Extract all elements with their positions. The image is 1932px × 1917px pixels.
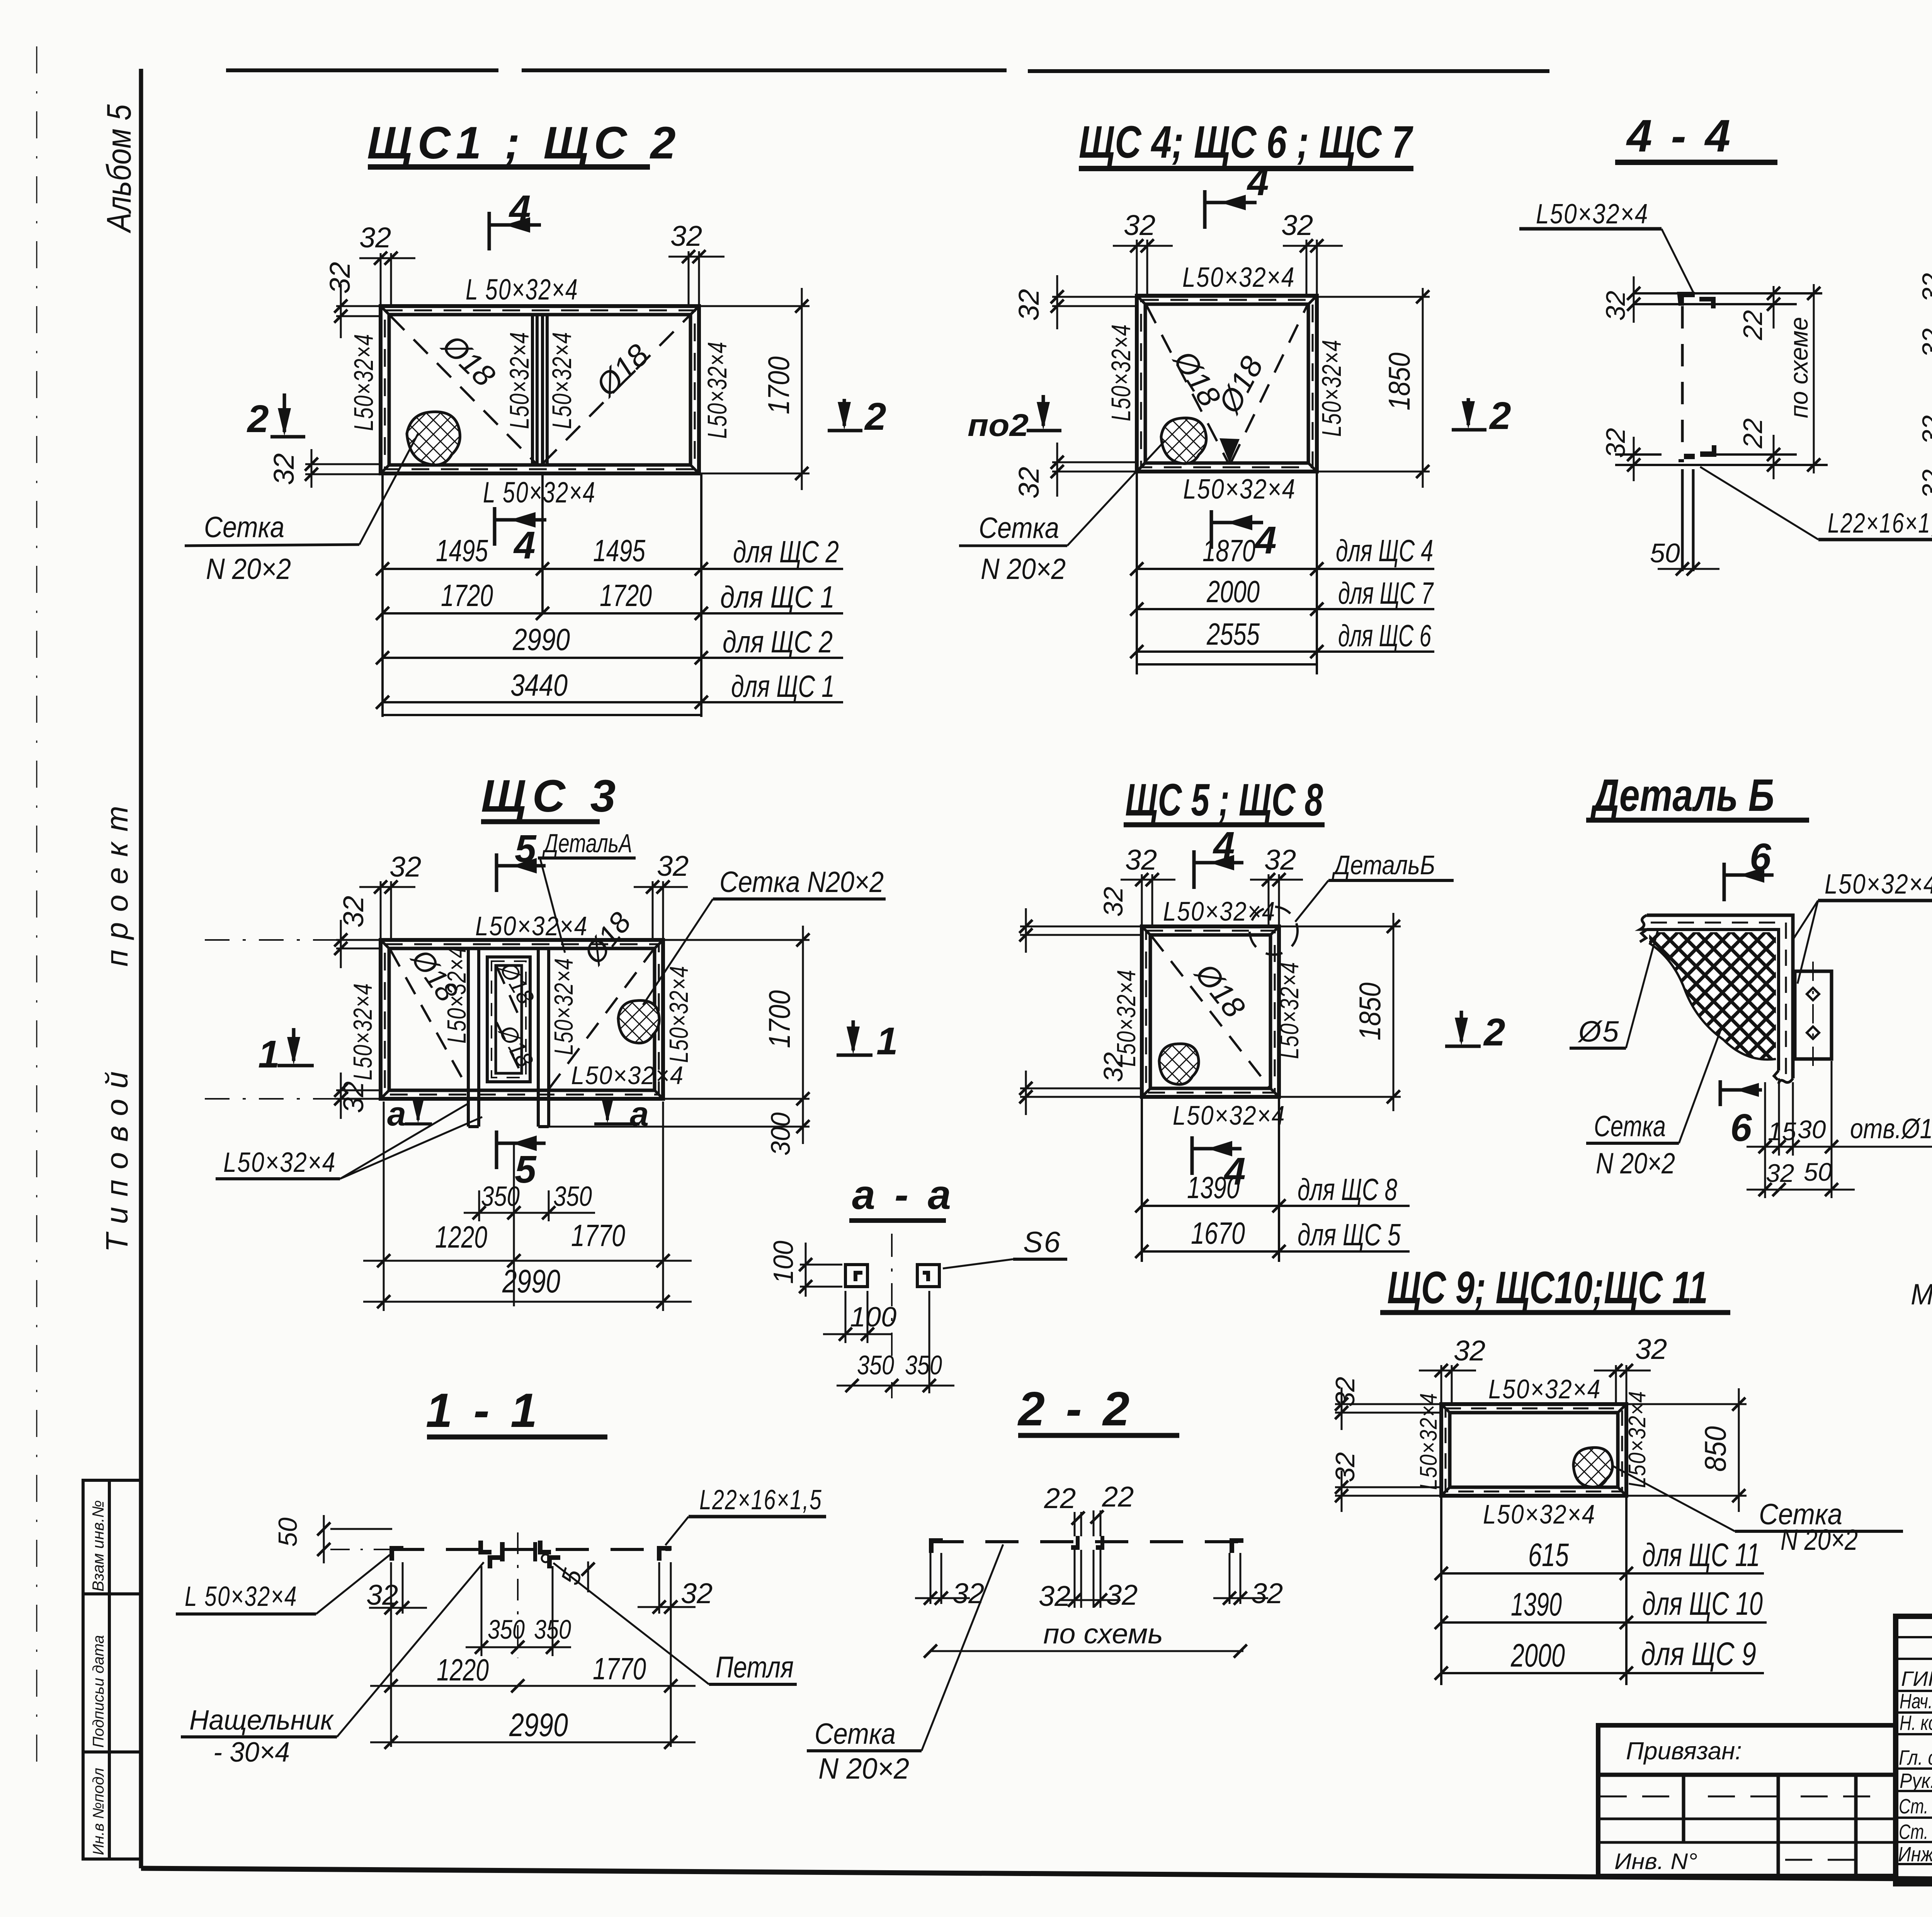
4-4 bottom rail [1615, 445, 1828, 465]
svg-text:32: 32 [952, 1577, 984, 1609]
2-2 main dashed line [930, 1540, 1240, 1543]
panel ЩС9 frame [1441, 1404, 1626, 1496]
svg-text:4: 4 [1247, 160, 1269, 204]
svg-text:2: 2 [864, 395, 886, 438]
svg-text:Петля: Петля [716, 1650, 794, 1684]
svg-text:L50×32×4: L50×32×4 [1106, 324, 1136, 421]
dim 1850 right (ЩС5) [1279, 913, 1401, 1111]
2-2 right end angle [1230, 1538, 1243, 1553]
svg-text:Ст. инж.: Ст. инж. [1899, 1795, 1932, 1818]
dim table ЩС1 [383, 473, 843, 717]
svg-text:1720: 1720 [600, 578, 652, 613]
svg-text:350: 350 [905, 1350, 942, 1380]
svg-text:для ЩС 2: для ЩС 2 [723, 625, 833, 659]
mesh blob ЩС5 [1159, 1044, 1199, 1084]
svg-text:6: 6 [1730, 1106, 1752, 1149]
section mark 4 (top of ЩС1) [489, 212, 541, 250]
svg-text:4: 4 [1254, 519, 1277, 562]
mesh blob ЩС1 [407, 412, 460, 465]
panel ЩС3 frame [381, 940, 663, 1099]
svg-text:a: a [387, 1095, 406, 1133]
svg-text:a - a: a - a [852, 1171, 955, 1218]
sheet frame: bottom border [141, 1868, 1932, 1884]
svg-text:1700: 1700 [762, 990, 796, 1048]
svg-text:L50×32×4: L50×32×4 [504, 332, 534, 429]
svg-text:по схеме: по схеме [1784, 317, 1813, 418]
svg-text:для ЩС 2: для ЩС 2 [733, 535, 839, 569]
svg-text:50: 50 [273, 1517, 303, 1547]
svg-text:32: 32 [359, 221, 391, 254]
4-4 dashed web line [1681, 306, 1684, 455]
svg-text:1720: 1720 [441, 578, 493, 613]
svg-text:1: 1 [876, 1020, 898, 1063]
panel ЩС4 frame [1137, 296, 1317, 472]
svg-text:2: 2 [1489, 394, 1511, 438]
Деталь Б gusset plate [1795, 962, 1832, 1069]
svg-text:L50×32×4: L50×32×4 [547, 332, 577, 429]
svg-text:3440: 3440 [510, 668, 568, 702]
Деталь Б mesh area [1649, 932, 1776, 1059]
svg-text:32: 32 [337, 896, 369, 928]
mesh blob ЩС3 [618, 1001, 659, 1043]
svg-text:1220: 1220 [435, 1220, 487, 1254]
svg-text:L50×32×4: L50×32×4 [1488, 1374, 1601, 1404]
svg-text:L50×32×4: L50×32×4 [1182, 262, 1295, 293]
section mark 5 (bottom of ЩС3) [497, 1130, 546, 1169]
panel ЩС1 middle divider [532, 315, 547, 465]
svg-text:для ЩС 4: для ЩС 4 [1336, 533, 1433, 568]
svg-text:32: 32 [1330, 1452, 1360, 1482]
svg-text:по схемь: по схемь [1043, 1619, 1163, 1650]
title block main frame [1896, 1616, 1932, 1884]
svg-text:32: 32 [1635, 1333, 1667, 1365]
svg-text:Сетка: Сетка [979, 512, 1059, 545]
svg-text:Инженер: Инженер [1898, 1843, 1932, 1866]
dim line по схеме (2-2) [930, 1650, 1243, 1652]
svg-text:L50×32×4: L50×32×4 [1112, 969, 1141, 1067]
svg-text:L50×32×4: L50×32×4 [1275, 962, 1304, 1059]
svg-text:отв.Ø15: отв.Ø15 [1850, 1113, 1932, 1144]
section mark 2 right of ЩС1 [828, 399, 862, 431]
svg-text:615: 615 [1528, 1537, 1569, 1573]
svg-text:для ЩС 6: для ЩС 6 [1338, 618, 1431, 653]
svg-text:Взам инв.№: Взам инв.№ [89, 1500, 107, 1592]
dim 1700 right of ЩС3 [663, 926, 810, 1144]
section mark 4 (top of ЩС5) [1194, 850, 1243, 889]
svg-text:32: 32 [1039, 1580, 1070, 1612]
svg-text:ДетальА: ДетальА [542, 829, 632, 858]
svg-text:ГИП: ГИП [1901, 1667, 1932, 1691]
svg-text:32: 32 [1013, 467, 1045, 499]
svg-text:L50×32×4: L50×32×4 [549, 958, 578, 1055]
svg-text:L50×32×4: L50×32×4 [348, 983, 378, 1080]
svg-text:для ЩС 8: для ЩС 8 [1298, 1172, 1397, 1207]
svg-text:4: 4 [513, 524, 536, 567]
svg-text:2: 2 [1483, 1011, 1505, 1054]
svg-text:Рук. гр.: Рук. гр. [1900, 1769, 1932, 1793]
Деталь Б circle (ЩС5) [1250, 907, 1298, 955]
svg-text:350: 350 [488, 1614, 525, 1645]
svg-text:L22×16×1,5: L22×16×1,5 [1828, 508, 1932, 539]
4-4 top rail [1634, 292, 1822, 308]
svg-text:Сетка: Сетка [1594, 1110, 1666, 1143]
svg-text:Ин.в №подл: Ин.в №подл [90, 1768, 107, 1855]
2-2 left end angle [929, 1538, 943, 1553]
svg-text:1: 1 [258, 1033, 280, 1076]
svg-text:Н. контр.: Н. контр. [1900, 1711, 1932, 1735]
svg-text:Альбом 5: Альбом 5 [100, 104, 138, 233]
svg-text:850: 850 [1698, 1426, 1732, 1472]
panel ЩС1 frame [381, 306, 699, 473]
svg-text:350: 350 [857, 1350, 894, 1380]
svg-text:4: 4 [509, 187, 531, 231]
svg-text:5: 5 [515, 827, 537, 870]
svg-text:Нач. отд.: Нач. отд. [1900, 1690, 1932, 1713]
svg-text:32: 32 [670, 220, 702, 252]
svg-text:L50×32×4: L50×32×4 [664, 965, 694, 1063]
svg-text:2 - 2: 2 - 2 [1017, 1382, 1133, 1436]
panel ЩС5 frame [1142, 926, 1279, 1097]
section mark 2 right of ЩС4 [1452, 398, 1486, 430]
svg-text:Ст. инж.: Ст. инж. [1899, 1820, 1932, 1844]
svg-text:350: 350 [553, 1181, 592, 1212]
svg-text:ЩС 9; ЩС10;ЩС 11: ЩС 9; ЩС10;ЩС 11 [1387, 1262, 1708, 1313]
svg-text:L22×16×1,5: L22×16×1,5 [699, 1485, 822, 1515]
axis dash-dot lines left of ЩС3 [205, 940, 381, 1099]
svg-text:1495: 1495 [593, 533, 645, 568]
svg-text:2555: 2555 [1206, 617, 1260, 651]
svg-text:32: 32 [1106, 1579, 1138, 1611]
svg-text:L50×32×4: L50×32×4 [1183, 474, 1296, 505]
svg-text:L 50×32×4: L 50×32×4 [185, 1581, 298, 1612]
svg-text:L50×32×4: L50×32×4 [349, 334, 379, 431]
section mark a right (ЩС3) [594, 1101, 639, 1124]
svg-text:для ЩС 5: для ЩС 5 [1298, 1217, 1401, 1252]
svg-text:32: 32 [1125, 844, 1157, 876]
svg-text:1850: 1850 [1382, 352, 1416, 410]
panel ЩС3 inner frame [487, 957, 530, 1082]
svg-text:L50×32×4: L50×32×4 [223, 1147, 336, 1178]
svg-text:Гл. спец.: Гл. спец. [1899, 1746, 1932, 1769]
svg-text:L50×32×4: L50×32×4 [1163, 896, 1276, 926]
svg-text:L 50×32×4: L 50×32×4 [483, 476, 596, 509]
dim table ЩС4 [1137, 472, 1434, 674]
mesh blob ЩС9 [1573, 1447, 1612, 1487]
ЩС5 diagonal [1151, 936, 1269, 1087]
svg-text:32: 32 [1013, 289, 1045, 321]
svg-text:32: 32 [1917, 415, 1932, 444]
1-1 middle hinge cluster left [478, 1541, 505, 1568]
svg-text:для ЩС 9: для ЩС 9 [1641, 1636, 1756, 1672]
svg-text:для ЩС 7: для ЩС 7 [1338, 576, 1434, 610]
svg-text:L50×32×4: L50×32×4 [442, 946, 471, 1044]
svg-text:для ЩС 1: для ЩС 1 [720, 580, 835, 614]
dim 850 right (ЩС9) [1626, 1388, 1747, 1512]
svg-text:L50×32×4: L50×32×4 [1316, 339, 1347, 437]
svg-text:ЩС 3: ЩС 3 [481, 771, 622, 822]
2-2 middle cluster [1071, 1536, 1104, 1550]
svg-text:1700: 1700 [762, 356, 796, 414]
svg-text:L50×32×4: L50×32×4 [1536, 199, 1649, 230]
svg-text:N 20×2: N 20×2 [206, 553, 291, 586]
svg-text:L 50×32×4: L 50×32×4 [466, 273, 578, 306]
svg-text:Привязан:: Привязан: [1626, 1737, 1742, 1765]
section mark 4 (bottom of ЩС4) [1211, 510, 1263, 549]
4-4 lower studs [1681, 469, 1684, 571]
left margin stamp boxes [83, 1480, 141, 1859]
1-1 center axis [517, 1532, 519, 1658]
svg-text:2990: 2990 [509, 1707, 568, 1743]
section mark 4 (bottom of ЩС1) [495, 507, 546, 546]
svg-text:Подписьи дата: Подписьи дата [90, 1635, 107, 1748]
svg-text:6: 6 [1750, 836, 1772, 879]
svg-text:L50×32×4: L50×32×4 [475, 911, 588, 941]
Деталь Б corner part [1640, 915, 1793, 1084]
svg-text:2990: 2990 [512, 622, 570, 657]
svg-text:2990: 2990 [502, 1263, 560, 1299]
svg-text:для ЩС 10: для ЩС 10 [1642, 1585, 1763, 1622]
2-2 lower verticals [930, 1550, 1240, 1608]
1-1 middle hinge cluster right [533, 1541, 560, 1568]
section mark 4 (top of ЩС4) [1205, 190, 1257, 229]
svg-text:32: 32 [1917, 273, 1932, 302]
svg-text:32: 32 [1281, 209, 1313, 241]
svg-text:ЩС1 ; ЩС 2: ЩС1 ; ЩС 2 [367, 117, 681, 169]
svg-text:32: 32 [1917, 469, 1932, 499]
section mark 6 (top of Деталь Б) [1724, 863, 1774, 901]
svg-text:32: 32 [1251, 1577, 1283, 1609]
svg-text:S6: S6 [1023, 1226, 1061, 1259]
1-1 left end angle [389, 1546, 403, 1561]
panel ЩС1 diagonals [390, 316, 689, 464]
svg-text:для ЩС 1: для ЩС 1 [731, 669, 835, 703]
svg-text:Сетка: Сетка [204, 511, 284, 544]
sheet frame: left faint dash-dot line [36, 46, 37, 1762]
svg-text:L50×32×4: L50×32×4 [1825, 869, 1932, 900]
svg-text:1870: 1870 [1202, 533, 1255, 568]
svg-text:32: 32 [1454, 1335, 1485, 1367]
svg-text:32: 32 [1098, 887, 1128, 917]
svg-text:2: 2 [247, 397, 269, 441]
panel ЩС4 V diagonals [1146, 305, 1307, 462]
svg-text:N 20×2: N 20×2 [981, 553, 1066, 586]
svg-text:50: 50 [1804, 1158, 1832, 1186]
svg-text:22: 22 [1102, 1481, 1134, 1513]
a-a detail squares [845, 1265, 939, 1287]
svg-text:22: 22 [1044, 1482, 1076, 1514]
svg-text:1670: 1670 [1191, 1216, 1245, 1250]
svg-text:32: 32 [1124, 209, 1155, 241]
svg-text:L50×32×4: L50×32×4 [1173, 1100, 1286, 1130]
svg-text:1390: 1390 [1511, 1586, 1562, 1622]
a-a center axis [891, 1234, 893, 1398]
svg-text:1850: 1850 [1353, 982, 1387, 1040]
svg-text:L50×32×4: L50×32×4 [1415, 1393, 1442, 1490]
svg-text:Сетка N20×2: Сетка N20×2 [719, 866, 884, 899]
svg-text:N 20×2: N 20×2 [1781, 1524, 1858, 1556]
svg-text:Нащельник: Нащельник [189, 1705, 334, 1736]
dim table ЩС5 [1142, 1097, 1410, 1262]
section mark 4 (bottom ЩС5) [1192, 1136, 1242, 1175]
svg-text:ДетальБ: ДетальБ [1332, 850, 1435, 880]
dim line по схеме (4-4) [1813, 284, 1815, 473]
svg-text:32: 32 [268, 453, 300, 485]
svg-text:4: 4 [1213, 824, 1235, 867]
svg-text:по2: по2 [968, 408, 1029, 443]
svg-text:300: 300 [765, 1112, 796, 1156]
svg-text:1770: 1770 [571, 1218, 625, 1253]
svg-text:1770: 1770 [593, 1651, 646, 1686]
svg-text:Ø5: Ø5 [1577, 1015, 1620, 1048]
svg-text:1495: 1495 [436, 533, 488, 568]
svg-text:Инв. N°: Инв. N° [1614, 1849, 1697, 1874]
svg-text:N 20×2: N 20×2 [1596, 1147, 1675, 1180]
svg-text:4 - 4: 4 - 4 [1626, 111, 1733, 162]
svg-text:22: 22 [1738, 310, 1768, 340]
section mark 1 right of ЩС3 [837, 1020, 872, 1055]
section mark 6 (bottom of Деталь Б) [1720, 1080, 1762, 1106]
panel ЩС3 posts [468, 948, 549, 1127]
svg-text:L50×32×4: L50×32×4 [571, 1061, 684, 1090]
svg-text:L50×32×4: L50×32×4 [702, 341, 732, 439]
sheet frame: top partial line [226, 69, 1932, 71]
svg-text:2000: 2000 [1510, 1637, 1565, 1674]
section mark 5 (top of ЩС3) [497, 853, 546, 892]
sheet frame: left border [139, 69, 143, 1868]
svg-text:Сетка: Сетка [815, 1718, 896, 1750]
dim table ЩС9 [1441, 1496, 1767, 1685]
ЩС3 diagonals [390, 950, 653, 1089]
svg-text:100: 100 [768, 1241, 799, 1284]
svg-text:1390: 1390 [1187, 1170, 1240, 1205]
dim 1700 right of ЩС1 [699, 288, 810, 490]
svg-text:2000: 2000 [1206, 574, 1260, 609]
dim 300 right of ЩС3 [549, 1126, 810, 1128]
Привязан table [1598, 1725, 1896, 1876]
svg-text:22: 22 [1738, 418, 1768, 449]
svg-text:для ЩС 11: для ЩС 11 [1642, 1537, 1760, 1573]
svg-text:32: 32 [1600, 291, 1631, 321]
svg-text:L50×32×4: L50×32×4 [1483, 1499, 1596, 1529]
svg-text:32: 32 [681, 1577, 713, 1609]
svg-text:30: 30 [1798, 1115, 1826, 1144]
svg-text:32: 32 [1264, 844, 1296, 876]
svg-text:ЩС 5 ; ЩС 8: ЩС 5 ; ЩС 8 [1125, 775, 1323, 826]
svg-text:50: 50 [1650, 538, 1680, 568]
section mark 2 right (ЩС5) [1445, 1011, 1481, 1046]
svg-text:Деталь Б: Деталь Б [1590, 770, 1774, 821]
dim 1850 right of ЩС4 [1317, 288, 1430, 488]
svg-text:Маркировку щитов смотрите: Маркировку щитов смотрите на листах 18, … [1911, 1278, 1932, 1311]
1-1 right end angle [657, 1546, 672, 1561]
svg-text:- 30×4: - 30×4 [213, 1737, 290, 1768]
svg-text:32: 32 [1917, 328, 1932, 358]
svg-text:32: 32 [389, 851, 421, 883]
svg-text:32: 32 [657, 850, 689, 882]
svg-text:ЩС 4; ЩС 6 ; ЩС 7: ЩС 4; ЩС 6 ; ЩС 7 [1079, 117, 1413, 168]
svg-text:1 - 1: 1 - 1 [426, 1384, 541, 1437]
mesh blob ЩС4 [1161, 418, 1206, 463]
svg-text:1220: 1220 [437, 1653, 489, 1687]
svg-text:N 20×2: N 20×2 [818, 1752, 909, 1785]
1-1 main dashed line [391, 1548, 671, 1551]
